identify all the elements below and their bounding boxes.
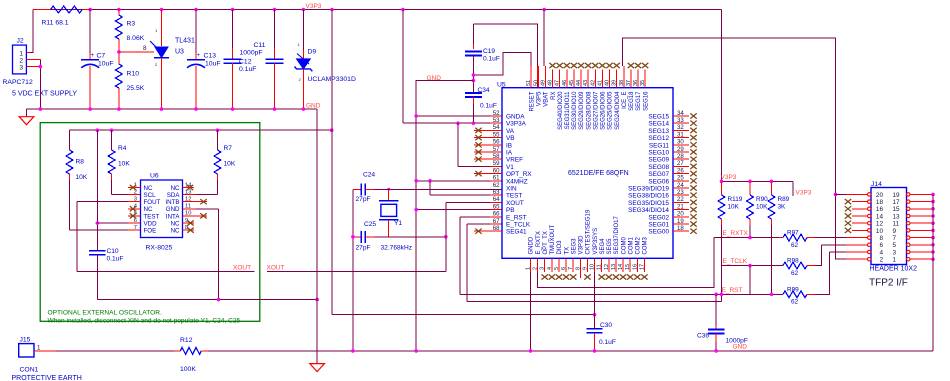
- capacitor C10: [96, 130, 98, 250]
- svg-text:6521DE/FE 68QFN: 6521DE/FE 68QFN: [568, 170, 629, 177]
- svg-text:9: 9: [893, 228, 897, 235]
- node V3P3 top rail junctions: [88, 8, 92, 12]
- wire VBAT to rail: [543, 10, 545, 67]
- svg-text:COM2: COM2: [636, 237, 642, 255]
- capacitor C11: [274, 10, 276, 49]
- svg-text:GNDD: GNDD: [529, 236, 535, 254]
- svg-text:C36: C36: [697, 333, 709, 340]
- svg-text:DIO3: DIO3: [557, 240, 563, 255]
- wire GNDA row: [416, 115, 490, 117]
- wire X4MHZ row: [416, 180, 490, 182]
- svg-text:XOUT: XOUT: [233, 265, 251, 272]
- svg-text:10K: 10K: [118, 161, 130, 168]
- resistor R10: [118, 52, 120, 64]
- svg-text:SEG41: SEG41: [506, 229, 527, 236]
- svg-text:SEG29/DIO09: SEG29/DIO09: [579, 91, 585, 130]
- resistor R97: [779, 237, 783, 239]
- node PB junction: [414, 208, 418, 212]
- wire E_TCLK from U5: [490, 223, 502, 225]
- node C25 left junction: [351, 235, 355, 239]
- svg-text:SEG4: SEG4: [600, 238, 606, 255]
- svg-text:VBAT: VBAT: [544, 91, 550, 107]
- svg-text:8: 8: [879, 235, 883, 242]
- svg-text:SEG39/DIO19: SEG39/DIO19: [628, 186, 669, 193]
- svg-text:TFP2 I/F: TFP2 I/F: [869, 278, 908, 289]
- svg-text:GND: GND: [306, 102, 321, 109]
- svg-text:+: +: [197, 53, 201, 59]
- wire V3P3SYS to C30: [594, 272, 596, 329]
- svg-text:10uF: 10uF: [205, 61, 221, 68]
- svg-text:R98: R98: [787, 258, 799, 265]
- wire ICE_E to J14 pin20/pin2: [623, 38, 868, 259]
- svg-text:TEST: TEST: [506, 193, 522, 200]
- svg-text:NC: NC: [171, 220, 180, 227]
- node box GND junctions: [217, 298, 221, 302]
- op-amp U3 TL431: [161, 10, 163, 47]
- svg-text:R10: R10: [127, 71, 140, 78]
- svg-text:J2: J2: [17, 38, 24, 45]
- svg-text:3: 3: [893, 249, 897, 256]
- svg-text:VDD: VDD: [144, 220, 158, 227]
- svg-text:32.768kHz: 32.768kHz: [381, 245, 413, 252]
- wire power GND bus: [27, 108, 318, 110]
- svg-text:E_RXTX: E_RXTX: [723, 230, 749, 237]
- node pullup rail junctions: [96, 128, 100, 132]
- svg-text:E_TCLK: E_TCLK: [723, 258, 748, 265]
- resistor R99: [783, 291, 807, 298]
- svg-text:TMUXOUT: TMUXOUT: [550, 225, 556, 255]
- wire VDD row: [97, 222, 128, 224]
- node E_RST junctions: [714, 293, 718, 297]
- svg-text:E_TCLK: E_TCLK: [506, 222, 531, 229]
- svg-text:SEG31/DIO11: SEG31/DIO11: [565, 91, 571, 130]
- svg-text:ICE_E: ICE_E: [622, 92, 628, 109]
- U5 left no-connect pins: [474, 129, 502, 131]
- svg-text:20: 20: [876, 192, 884, 199]
- svg-text:SDA: SDA: [167, 192, 181, 199]
- svg-text:8: 8: [143, 45, 147, 52]
- wire E_TCLK row: [722, 265, 784, 267]
- svg-text:SEG10: SEG10: [648, 150, 669, 157]
- svg-text:10uF: 10uF: [98, 61, 114, 68]
- svg-text:0.1uF: 0.1uF: [483, 56, 500, 63]
- svg-text:C30: C30: [600, 322, 612, 329]
- wire R7 to SDA: [196, 194, 218, 196]
- svg-text:R11 68.1: R11 68.1: [42, 20, 69, 27]
- svg-text:10K: 10K: [728, 204, 740, 211]
- svg-text:GND: GND: [166, 206, 180, 213]
- svg-text:C7: C7: [97, 53, 106, 60]
- svg-text:SEG06: SEG06: [648, 178, 669, 185]
- wire crystal bottom to XOUT column: [374, 236, 446, 238]
- svg-text:OPT_RX: OPT_RX: [506, 171, 532, 178]
- svg-text:18: 18: [876, 199, 884, 206]
- wire E_RST from U5: [490, 216, 502, 218]
- svg-text:C19: C19: [483, 48, 495, 55]
- svg-text:VA: VA: [506, 128, 515, 135]
- svg-text:R119: R119: [728, 196, 743, 203]
- svg-text:SEG25/DIO05: SEG25/DIO05: [608, 91, 614, 130]
- wire R8 to FOE: [70, 229, 129, 231]
- svg-text:C10: C10: [107, 248, 119, 255]
- svg-text:V3P3D: V3P3D: [579, 235, 585, 255]
- wire pullup rail (V3P3 in box): [70, 129, 332, 131]
- wire E_TCLK drop: [749, 266, 751, 295]
- svg-text:VREF: VREF: [506, 157, 523, 164]
- resistor R90: [749, 181, 751, 195]
- svg-text:U3: U3: [175, 49, 184, 56]
- svg-text:10: 10: [876, 228, 884, 235]
- node X4MHZ junctions: [414, 179, 418, 183]
- svg-text:R8: R8: [76, 159, 85, 166]
- svg-text:59: 59: [493, 160, 500, 167]
- svg-text:25.5K: 25.5K: [127, 85, 145, 92]
- wire XIN row: [374, 188, 502, 190]
- svg-text:When installed, disconnect XIN: When installed, disconnect XIN and do no…: [48, 318, 241, 325]
- svg-text:TL431: TL431: [175, 38, 195, 45]
- node XOUT column junction: [444, 235, 448, 239]
- svg-text:13: 13: [893, 213, 901, 220]
- wire E_RST row: [460, 293, 783, 295]
- svg-text:RX-8025: RX-8025: [146, 245, 173, 252]
- svg-text:V1: V1: [506, 164, 514, 171]
- svg-text:SEG5: SEG5: [607, 238, 613, 255]
- svg-text:10K: 10K: [224, 161, 236, 168]
- node R3/R10 junction: [117, 50, 121, 54]
- svg-text:SEG26/DIO06: SEG26/DIO06: [601, 91, 607, 130]
- capacitor C24: [353, 188, 362, 190]
- wire PB row: [416, 209, 490, 211]
- svg-text:0.1uF: 0.1uF: [107, 256, 124, 263]
- svg-text:16: 16: [876, 206, 884, 213]
- diode D9 UCLAMP3301D: [302, 10, 304, 51]
- svg-text:3K: 3K: [778, 204, 787, 211]
- svg-text:5 VDC EXT SUPPLY: 5 VDC EXT SUPPLY: [12, 91, 77, 98]
- svg-text:SEG18: SEG18: [629, 91, 635, 111]
- resistor R8: [69, 130, 71, 150]
- svg-text:63: 63: [493, 189, 500, 196]
- svg-text:PB: PB: [506, 207, 515, 214]
- svg-text:5: 5: [893, 242, 897, 249]
- svg-text:VB: VB: [506, 135, 515, 142]
- svg-text:C24: C24: [363, 172, 375, 179]
- wire TL431 ref: [119, 51, 154, 53]
- svg-text:100K: 100K: [180, 366, 196, 373]
- svg-text:65: 65: [493, 203, 500, 210]
- capacitor C34: [465, 92, 482, 94]
- svg-text:SEG12: SEG12: [648, 135, 669, 142]
- svg-text:1: 1: [19, 51, 23, 58]
- svg-text:SEG34/DIO14: SEG34/DIO14: [628, 207, 669, 214]
- node V3P3A junctions: [456, 121, 460, 125]
- svg-text:2: 2: [879, 257, 883, 264]
- svg-text:COM1: COM1: [628, 237, 634, 255]
- svg-text:TEST: TEST: [144, 213, 160, 220]
- svg-text:27pF: 27pF: [356, 196, 371, 203]
- svg-text:SEG13: SEG13: [648, 128, 669, 135]
- wire RESET jog: [473, 52, 531, 75]
- svg-text:IB: IB: [506, 142, 512, 149]
- svg-text:1: 1: [893, 257, 897, 264]
- svg-text:Y1: Y1: [394, 220, 402, 227]
- wire V3P3A feed: [402, 10, 404, 124]
- ground bottom: [310, 364, 325, 372]
- svg-text:SEG00: SEG00: [648, 229, 669, 236]
- svg-text:RAPC712: RAPC712: [3, 79, 33, 86]
- svg-text:62: 62: [791, 299, 799, 306]
- svg-text:15: 15: [893, 206, 901, 213]
- svg-text:U6: U6: [150, 173, 159, 180]
- svg-text:SEG11: SEG11: [649, 142, 670, 149]
- svg-text:SEG24/DIO04: SEG24/DIO04: [615, 91, 621, 130]
- wire TEST branch: [429, 181, 431, 195]
- svg-text:6: 6: [134, 218, 137, 224]
- wire V1 branch: [457, 123, 459, 166]
- svg-text:3: 3: [19, 65, 23, 72]
- svg-text:SEG30/DIO10: SEG30/DIO10: [572, 91, 578, 130]
- svg-text:12: 12: [876, 221, 884, 228]
- svg-text:INTB: INTB: [165, 199, 179, 206]
- svg-text:SCL: SCL: [144, 192, 157, 199]
- wire C19 top to pin50: [473, 24, 537, 66]
- svg-text:10K: 10K: [76, 174, 88, 181]
- svg-text:E_RXTX: E_RXTX: [536, 231, 542, 254]
- capacitor C36: [715, 294, 717, 326]
- svg-text:SEG27/DIO07: SEG27/DIO07: [593, 91, 599, 130]
- node C10/VDD junction: [96, 221, 100, 225]
- resistor R89: [771, 181, 773, 195]
- svg-text:GNDA: GNDA: [506, 114, 525, 121]
- wire R4 to SCL: [112, 194, 128, 196]
- svg-text:SEG01: SEG01: [648, 222, 669, 229]
- svg-text:SEG16: SEG16: [643, 91, 649, 111]
- svg-text:SEG17: SEG17: [636, 91, 642, 111]
- svg-text:62: 62: [791, 270, 799, 277]
- J14 left pins: [868, 193, 871, 196]
- svg-text:J15: J15: [20, 337, 31, 344]
- svg-text:X4MHZ: X4MHZ: [506, 178, 528, 185]
- wire bottom GND rail: [34, 350, 56, 352]
- wire J2 pin1 riser: [26, 10, 33, 53]
- ground power section: [19, 117, 34, 125]
- svg-text:C13: C13: [204, 53, 217, 60]
- svg-text:53: 53: [493, 117, 500, 124]
- wire XOUT stub (in box): [77, 271, 254, 273]
- svg-text:SEG38/DIO16: SEG38/DIO16: [628, 193, 669, 200]
- wire V3P3 riser to C30 feed: [331, 10, 333, 315]
- svg-text:R12: R12: [180, 337, 193, 344]
- svg-text:64: 64: [493, 196, 500, 203]
- svg-text:14: 14: [876, 213, 884, 220]
- node E_TCLK junction: [748, 264, 752, 268]
- wire E_RXTX route: [538, 238, 714, 288]
- svg-text:C25: C25: [364, 221, 376, 228]
- svg-text:E_RST: E_RST: [506, 214, 527, 221]
- capacitor C30: [586, 328, 602, 330]
- wire bottom GND rail right: [208, 350, 933, 352]
- svg-text:XOUT: XOUT: [267, 265, 285, 272]
- svg-text:OPTIONAL EXTERNAL OSCILLATOR.: OPTIONAL EXTERNAL OSCILLATOR.: [48, 310, 162, 317]
- svg-text:PROTECTIVE EARTH: PROTECTIVE EARTH: [12, 375, 82, 381]
- svg-text:V3P3SYS: V3P3SYS: [593, 228, 599, 255]
- resistor R11: [33, 9, 51, 11]
- svg-text:SEG37/DIO17: SEG37/DIO17: [614, 215, 620, 254]
- svg-text:INTA: INTA: [166, 213, 181, 220]
- svg-text:V3P3A: V3P3A: [506, 121, 527, 128]
- svg-text:0.1uF: 0.1uF: [599, 339, 616, 346]
- svg-text:62: 62: [493, 182, 500, 189]
- svg-text:R90: R90: [756, 196, 768, 203]
- svg-text:NC: NC: [144, 206, 153, 213]
- svg-text:R97: R97: [787, 230, 799, 237]
- svg-text:SEG02: SEG02: [648, 214, 669, 221]
- capacitor C13: [195, 10, 197, 54]
- svg-text:R4: R4: [118, 145, 127, 152]
- capacitor C25: [353, 236, 362, 238]
- svg-text:XIN: XIN: [506, 186, 517, 193]
- svg-text:V3P5: V3P5: [537, 91, 543, 106]
- svg-text:NC: NC: [144, 185, 153, 192]
- svg-text:0.1uF: 0.1uF: [480, 103, 497, 110]
- svg-text:+: +: [91, 53, 95, 59]
- wire C24/C25 ground leg: [352, 189, 354, 351]
- wire GNDD to rail: [530, 272, 532, 351]
- svg-text:19: 19: [893, 192, 901, 199]
- svg-text:FOE: FOE: [144, 228, 157, 235]
- resistor R3: [118, 10, 120, 16]
- svg-text:COM3: COM3: [643, 237, 649, 255]
- svg-text:C34: C34: [478, 87, 490, 94]
- node GND bus junctions: [39, 107, 43, 111]
- svg-text:62: 62: [791, 242, 799, 249]
- node ICE riser pin20 junction: [834, 193, 838, 197]
- capacitor C19: [472, 24, 474, 44]
- svg-text:V3P3: V3P3: [796, 190, 812, 197]
- node V3P3SYS feed junction: [593, 313, 597, 317]
- svg-text:CON1: CON1: [20, 367, 39, 374]
- svg-text:SEG15: SEG15: [648, 114, 669, 121]
- svg-text:52: 52: [493, 110, 500, 117]
- wire E_TCLK under-IC row: [467, 301, 722, 303]
- wire V3P3 top rail: [33, 9, 722, 11]
- resistor R4: [111, 130, 113, 150]
- svg-text:RESET: RESET: [529, 91, 535, 111]
- svg-text:COM0: COM0: [621, 237, 627, 255]
- capacitor C12: [232, 10, 234, 49]
- svg-text:D9: D9: [308, 49, 317, 56]
- node crystal top junction: [387, 188, 390, 191]
- svg-text:HEADER 10X2: HEADER 10X2: [870, 266, 918, 273]
- svg-text:TX: TX: [564, 247, 570, 255]
- svg-text:SEG07: SEG07: [648, 171, 669, 178]
- U5 right no-connect pins: [673, 115, 689, 117]
- node bottom rail junctions: [351, 349, 355, 353]
- crystal Y1: [388, 189, 390, 200]
- svg-text:XOUT: XOUT: [506, 200, 524, 207]
- wire V3P3 right rail: [721, 10, 723, 182]
- wire GND label branch: [416, 81, 473, 351]
- svg-text:1000pF: 1000pF: [240, 50, 263, 57]
- J14 right pins to GND: [907, 193, 910, 196]
- svg-text:SEG14: SEG14: [648, 121, 669, 128]
- capacitor C7: [89, 10, 91, 54]
- svg-text:R7: R7: [224, 145, 233, 152]
- wire J2 pin2/pin3 to GND: [26, 59, 40, 61]
- node J2 pin3 junction: [39, 65, 43, 69]
- svg-text:SEG28/DIO08: SEG28/DIO08: [586, 91, 592, 130]
- svg-text:NC: NC: [171, 228, 180, 235]
- svg-text:GND: GND: [733, 343, 748, 350]
- svg-text:7: 7: [893, 235, 897, 242]
- svg-text:SEG09: SEG09: [648, 157, 669, 164]
- U6 right pins: [183, 187, 195, 189]
- svg-text:4: 4: [879, 249, 883, 256]
- svg-text:E_RST: E_RST: [722, 287, 743, 294]
- wire GND riser power section: [316, 109, 318, 364]
- svg-text:R89: R89: [778, 196, 790, 203]
- U6 left no-connect pins: [128, 187, 141, 189]
- svg-text:IA: IA: [506, 150, 513, 157]
- svg-text:C12: C12: [239, 59, 252, 66]
- svg-text:R3: R3: [127, 21, 136, 28]
- svg-text:0.1uF: 0.1uF: [239, 66, 256, 73]
- svg-text:SEG3: SEG3: [571, 238, 577, 255]
- resistor R98: [783, 262, 807, 269]
- resistor R12: [174, 350, 180, 352]
- resistor R7: [217, 130, 219, 150]
- node C19 bottom junctions: [472, 73, 476, 77]
- svg-text:7: 7: [134, 225, 137, 231]
- svg-text:OPT_TX: OPT_TX: [543, 231, 549, 254]
- svg-text:17: 17: [893, 199, 901, 206]
- svg-text:RX: RX: [551, 92, 557, 100]
- svg-text:67: 67: [493, 218, 500, 225]
- svg-text:CKTEST/SEG19: CKTEST/SEG19: [586, 209, 592, 254]
- svg-text:27pF: 27pF: [356, 245, 371, 252]
- wire FOUT to XOUT: [128, 201, 141, 203]
- svg-text:13: 13: [185, 189, 191, 195]
- svg-text:R99: R99: [787, 287, 799, 294]
- optional oscillator green box: [40, 123, 260, 322]
- svg-text:2: 2: [19, 58, 23, 65]
- wire box GND row: [97, 299, 317, 301]
- wire U6 pin11 GND drop: [183, 208, 197, 210]
- node right rail junctions: [720, 180, 724, 184]
- svg-text:11: 11: [893, 221, 900, 228]
- svg-text:C11: C11: [254, 42, 266, 49]
- svg-text:SEG08: SEG08: [648, 164, 669, 171]
- wire E_RXTX row: [714, 237, 783, 239]
- resistor R119: [721, 181, 723, 195]
- svg-text:NC: NC: [171, 185, 180, 192]
- svg-text:61: 61: [493, 175, 500, 182]
- svg-text:6: 6: [879, 242, 883, 249]
- svg-text:8.06K: 8.06K: [127, 35, 145, 42]
- node GNDA junction: [414, 114, 418, 118]
- svg-text:V3P3: V3P3: [721, 174, 737, 181]
- svg-text:FOUT: FOUT: [144, 199, 161, 206]
- svg-text:10K: 10K: [756, 204, 768, 211]
- svg-text:66: 66: [493, 211, 500, 218]
- svg-text:SEG35/DIO15: SEG35/DIO15: [628, 200, 669, 207]
- svg-text:SEG40/DIO20: SEG40/DIO20: [558, 91, 564, 130]
- node R90 on E_RXTX: [748, 236, 752, 240]
- svg-text:V3P3: V3P3: [306, 3, 322, 10]
- svg-text:2: 2: [134, 189, 137, 195]
